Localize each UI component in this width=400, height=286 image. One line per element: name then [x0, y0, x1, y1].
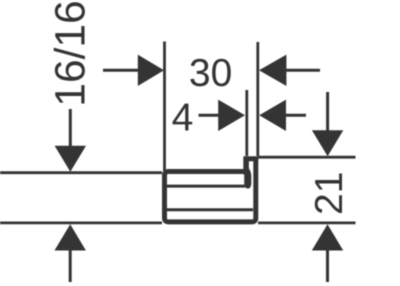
dimension 30: tail right: [285, 69, 320, 72]
dimension 16/16: vertical line: [69, 109, 72, 147]
dimension 30: tail left: [103, 69, 140, 72]
wire extension line B (30 right / x=257.8): [256, 42, 259, 156]
dimension 30: right-pointing arrow: [138, 55, 164, 86]
dimension 21: top vertical line: [326, 92, 329, 131]
label 30: [190, 59, 230, 87]
dimension 21: down-pointing arrow: [312, 130, 343, 156]
dimension 16/16: down-pointing arrow: [55, 146, 86, 172]
dimension 4: tail left: [199, 114, 221, 117]
bottom-left up-pointing arrow: [55, 224, 86, 250]
inner line 1 of profile: [167, 185, 245, 188]
dimension 4: tail right: [286, 114, 307, 117]
dimension 4: right-pointing arrow: [218, 100, 245, 131]
wire right-top wall line: [258, 156, 356, 159]
label 21: [315, 174, 342, 214]
dimension 21: bottom up-pointing arrow: [312, 224, 343, 250]
bottom-left vertical line: [69, 250, 72, 282]
wire extension line A (30 left / x=164.5): [163, 42, 166, 172]
wire left-bottom wall line: [0, 221, 162, 224]
wire right-bottom wall line: [258, 221, 356, 224]
profile outline of wall bar cross-section: [165, 159, 256, 222]
dimension 4: left-pointing arrow: [259, 100, 286, 131]
hook (riser, top bar and curl) at top right of profile: [243, 156, 258, 188]
dimension 21: bottom vertical line: [326, 250, 329, 282]
label 4: [173, 104, 193, 131]
inner line 2 of profile: [167, 208, 253, 211]
wire extension line C (4 left / x=246.8): [245, 90, 248, 156]
dimension 30: left-pointing arrow: [259, 55, 286, 86]
label 16/16: [54, 2, 85, 103]
wire left-top wall line: [0, 171, 162, 174]
